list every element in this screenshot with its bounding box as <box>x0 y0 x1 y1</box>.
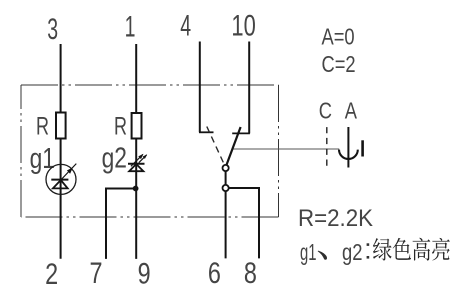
svg-text:g1: g1 <box>300 239 317 265</box>
wire junction to pin 7 <box>106 189 136 259</box>
svg-text:g1: g1 <box>30 144 55 175</box>
svg-text:C: C <box>319 98 332 124</box>
LED g1 cathode bar <box>51 179 68 181</box>
resistor R2 <box>132 113 142 139</box>
svg-text:R: R <box>114 111 127 140</box>
svg-text:2: 2 <box>45 257 58 290</box>
actuator cup arc <box>339 150 358 159</box>
wire pin 10 fixed contact <box>248 42 250 134</box>
svg-text:A: A <box>345 98 357 124</box>
switch lever <box>227 127 241 165</box>
svg-text:10: 10 <box>231 8 255 42</box>
junction node g2 cathode <box>133 186 139 192</box>
actuator side bar <box>361 140 364 156</box>
hanzi 亮 <box>432 238 450 261</box>
hanzi 绿 <box>373 238 392 260</box>
svg-text:g2: g2 <box>102 143 127 174</box>
switch alternate throw (dashed) <box>207 127 225 165</box>
svg-text:1: 1 <box>125 10 136 43</box>
module outline dash-dot border (right edge) <box>278 85 280 217</box>
module outline dash-dot border (top edge) <box>21 84 279 86</box>
LED g1 circle <box>46 164 76 194</box>
svg-text:9: 9 <box>138 257 151 290</box>
wire lever to actuator A <box>234 148 340 150</box>
wire pin1 to R2 <box>135 44 137 113</box>
pin 4 contact tick <box>199 131 214 133</box>
hanzi 高 <box>413 238 431 261</box>
svg-text:6: 6 <box>208 256 221 289</box>
hanzi 色 <box>393 238 411 260</box>
ideographic comma <box>318 251 327 260</box>
LED g2 triangle <box>129 164 143 171</box>
svg-text:R=2.2K: R=2.2K <box>298 204 374 231</box>
svg-text:A=0: A=0 <box>322 25 355 51</box>
LED g2 cathode bar <box>128 163 145 165</box>
resistor R1 <box>56 113 66 139</box>
wire common to pin 6 <box>225 191 227 258</box>
wire pin3 to R1 <box>60 44 62 113</box>
LED g1 triangle <box>53 180 68 188</box>
module outline dash-dot border (left edge) <box>20 85 22 217</box>
pin 10 contact tick <box>232 132 250 134</box>
wire R2 to LED g2 and pin 9 <box>135 139 137 259</box>
module outline dash-dot border (bottom edge) <box>21 216 279 218</box>
LED g1 light arrow <box>61 164 76 180</box>
svg-text:8: 8 <box>244 256 257 289</box>
svg-text:g2: g2 <box>342 239 363 265</box>
node C dashed line <box>326 127 328 168</box>
svg-text:3: 3 <box>47 13 58 46</box>
common node contact <box>223 185 229 191</box>
wire R1 to LED g1 and pin 2 <box>60 139 62 259</box>
svg-text:7: 7 <box>90 256 103 289</box>
actuator A plunger line <box>347 127 349 168</box>
svg-text:C=2: C=2 <box>322 52 356 78</box>
svg-text:R: R <box>36 111 49 140</box>
wire pin 4 fixed contact <box>199 42 201 133</box>
wire common to pin 8 <box>229 188 259 258</box>
switch pivot contact <box>223 165 229 171</box>
LED g2 light arrows <box>131 154 143 166</box>
colon <box>367 243 370 246</box>
wire pivot to common node <box>225 171 227 184</box>
svg-text:4: 4 <box>180 9 191 42</box>
